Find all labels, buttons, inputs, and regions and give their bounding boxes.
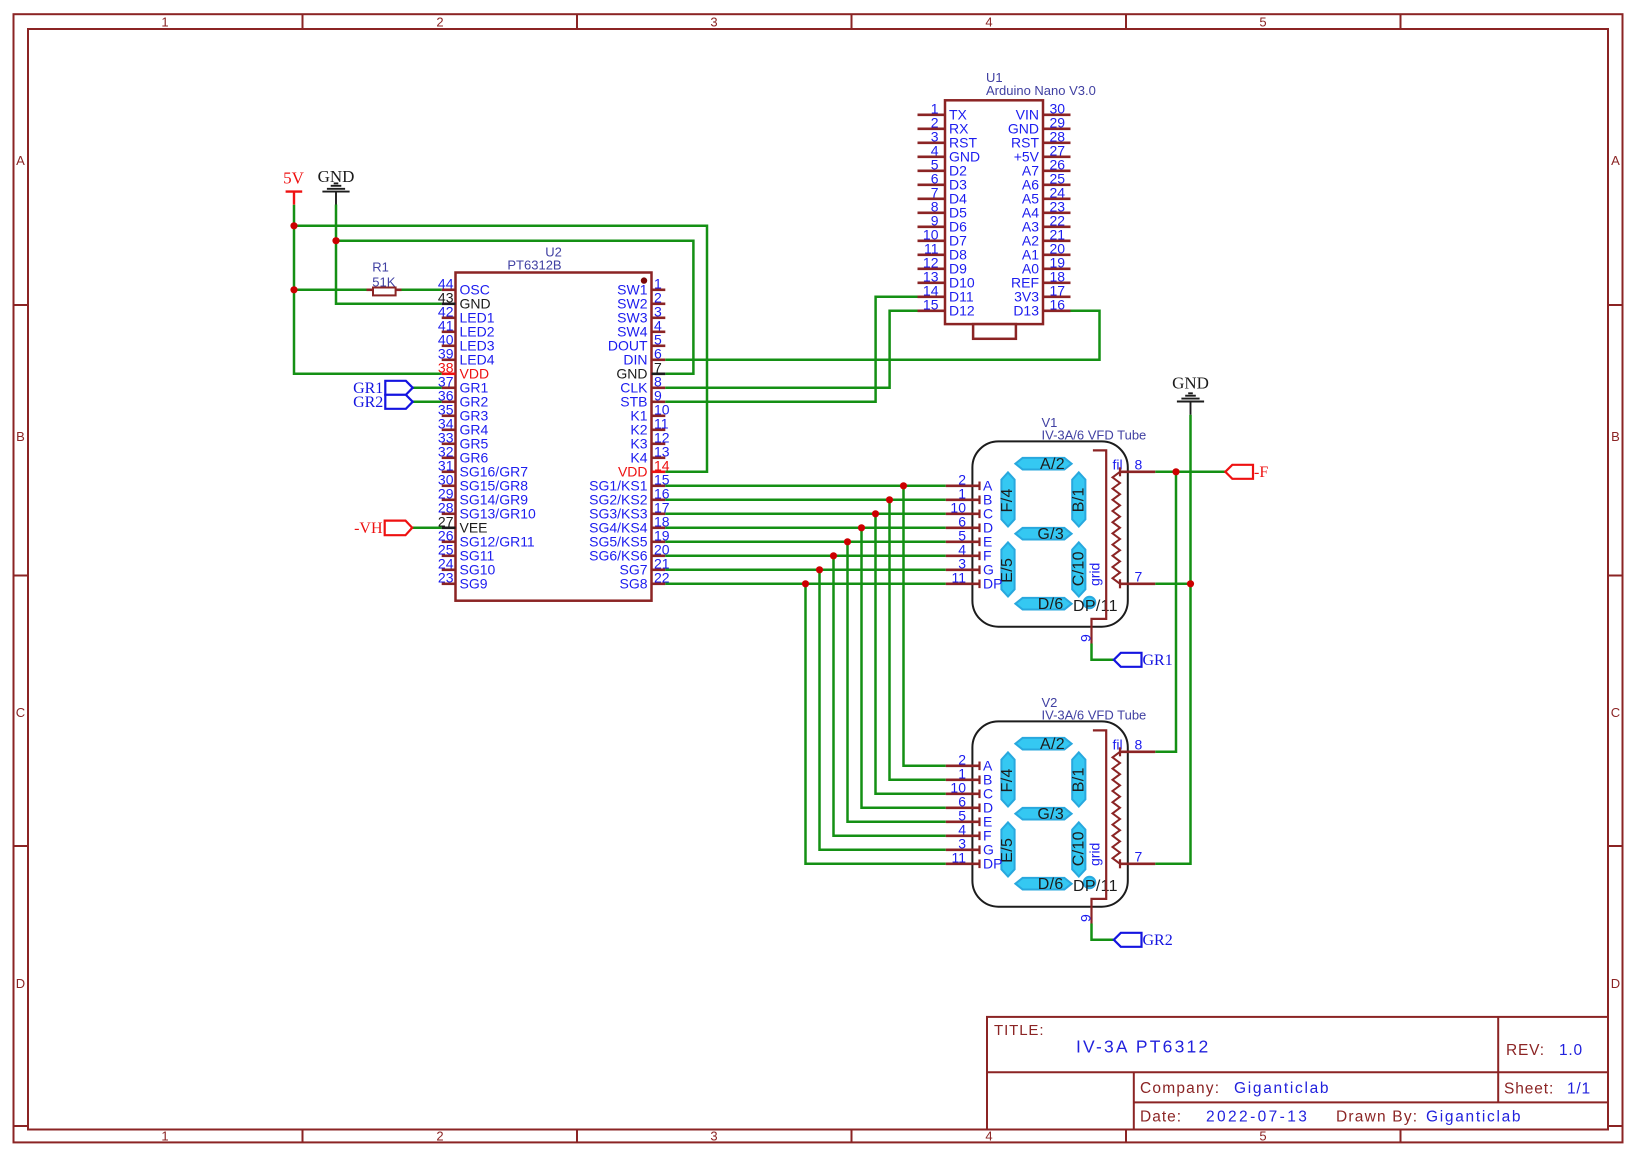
net flag GR1 (at V1) <box>1114 652 1173 669</box>
U2 pin 33 GR5 <box>438 430 489 452</box>
U2 pin 5 DOUT <box>608 332 665 354</box>
svg-text:A: A <box>16 153 25 168</box>
U2 pin 24 SG10 <box>438 556 496 578</box>
svg-text:C: C <box>16 705 25 720</box>
net flag -F <box>1225 464 1268 481</box>
U2 pin 12 K3 <box>630 430 669 452</box>
junction node D <box>858 524 865 531</box>
U1 pin 2 RX <box>918 115 970 137</box>
svg-text:4: 4 <box>985 15 992 30</box>
wire branch to V2 pin C <box>876 514 946 794</box>
wire U1 D11 to U2 STB <box>665 297 917 402</box>
svg-text:-VH: -VH <box>354 520 383 537</box>
U2 pin 42 LED1 <box>438 304 495 326</box>
junction node E <box>844 538 851 545</box>
U2 pin 43 GND <box>438 290 491 312</box>
U2 pin 13 K4 <box>630 444 669 466</box>
U2 pin-1 marker <box>641 277 647 283</box>
U1 pin 25 A6 <box>1022 171 1071 193</box>
U2 pin 27 VEE <box>438 514 488 536</box>
svg-text:R1: R1 <box>372 260 389 275</box>
svg-text:GR1: GR1 <box>1143 652 1173 669</box>
U2 pin 37 GR1 <box>438 374 489 396</box>
wire U2 SG7 to V1 pin G <box>665 569 946 572</box>
svg-text:D: D <box>16 976 25 991</box>
svg-text:TITLE:: TITLE: <box>994 1022 1044 1039</box>
junction node GND rail <box>332 237 339 244</box>
svg-text:SG8: SG8 <box>619 576 647 592</box>
svg-text:C: C <box>1611 705 1620 720</box>
svg-text:IV-3A/6 VFD Tube: IV-3A/6 VFD Tube <box>1042 708 1147 723</box>
U2 pin 9 STB <box>620 388 665 410</box>
junction node A <box>900 482 907 489</box>
wire U1 D13 to U2 DIN <box>665 311 1099 360</box>
U2 pin 7 GND <box>616 360 665 382</box>
wire U2 SG6 to V1 pin F <box>665 555 946 558</box>
svg-text:-F: -F <box>1254 464 1268 481</box>
U1 pin 11 D8 <box>918 241 968 263</box>
U2 pin 36 GR2 <box>438 388 489 410</box>
U2 pin 34 GR4 <box>438 416 489 438</box>
U1 pin 9 D6 <box>918 213 968 235</box>
svg-text:5: 5 <box>1259 1129 1266 1144</box>
svg-text:1.0: 1.0 <box>1559 1042 1583 1059</box>
svg-text:4: 4 <box>985 1129 992 1144</box>
wire branch to V2 pin E <box>848 542 946 822</box>
U2 pin 30 SG15/GR8 <box>438 472 528 494</box>
svg-text:IV-3A/6 VFD Tube: IV-3A/6 VFD Tube <box>1042 428 1147 443</box>
U1 pin 10 D7 <box>918 227 968 249</box>
wire U1 D12 to U2 CLK <box>665 311 917 388</box>
wire GND branch to U2 pin7 <box>336 241 693 374</box>
U1 pin 3 RST <box>918 129 978 151</box>
svg-text:Giganticlab: Giganticlab <box>1426 1109 1522 1126</box>
U2 pin 16 SG2/KS2 <box>589 486 670 508</box>
VFD tube V1 IV-3A/6 <box>946 415 1156 644</box>
U2 pin 26 SG12/GR11 <box>438 528 535 550</box>
U2 pin 10 K1 <box>630 402 669 424</box>
U2 pin 1 SW1 <box>617 276 665 298</box>
title block <box>987 1017 1608 1130</box>
U2 pin 3 SW3 <box>617 304 665 326</box>
U2 pin 38 VDD <box>438 360 489 382</box>
junction node F <box>830 552 837 559</box>
svg-text:GND: GND <box>1172 374 1209 393</box>
svg-text:PT6312B: PT6312B <box>507 257 561 272</box>
U2 pin 35 GR3 <box>438 402 489 424</box>
svg-text:Giganticlab: Giganticlab <box>1234 1080 1330 1097</box>
wire U2 SG3 to V1 pin C <box>665 513 946 516</box>
svg-text:1: 1 <box>161 1129 168 1144</box>
svg-text:15: 15 <box>923 297 939 313</box>
svg-text:SG9: SG9 <box>460 576 488 592</box>
U1 pin 22 A3 <box>1022 213 1071 235</box>
svg-text:A: A <box>1611 153 1620 168</box>
U1 pin 1 TX <box>918 101 968 123</box>
junction node fil <box>1172 468 1179 475</box>
U1 pin 21 A2 <box>1022 227 1071 249</box>
U1 pin 17 3V3 <box>1014 283 1070 305</box>
ground GND (left) <box>318 167 355 205</box>
junction node DP <box>802 580 809 587</box>
U1 pin 26 A7 <box>1022 157 1071 179</box>
IC U2 PT6312B body <box>456 245 652 601</box>
junction node G <box>816 566 823 573</box>
svg-text:Company:: Company: <box>1140 1080 1220 1097</box>
ground GND (right) <box>1172 374 1209 415</box>
U2 pin 22 SG8 <box>619 570 669 592</box>
svg-text:REV:: REV: <box>1506 1042 1545 1059</box>
U2 pin 17 SG3/KS3 <box>589 500 670 522</box>
svg-text:3: 3 <box>710 1129 717 1144</box>
U2 pin 8 CLK <box>620 374 665 396</box>
wire U2 SG2 to V1 pin B <box>665 499 946 502</box>
VFD tube V2 IV-3A/6 <box>946 695 1156 924</box>
wire branch to V2 pin G <box>820 570 946 850</box>
wire branch to V2 pin B <box>890 500 946 780</box>
U2 pin 14 VDD <box>618 458 670 480</box>
svg-text:2: 2 <box>436 15 443 30</box>
svg-text:3: 3 <box>710 15 717 30</box>
net flag GR2 (at V2) <box>1114 932 1173 949</box>
U1 pin 28 RST <box>1011 129 1071 151</box>
wire GND rail to V1/V2 pin7 <box>1155 415 1190 864</box>
wire -VH flag to U2 pin27 VEE <box>412 527 442 530</box>
U2 pin 2 SW2 <box>617 290 665 312</box>
U1 pin 27 +5V <box>1014 143 1071 165</box>
U2 pin 28 SG13/GR10 <box>438 500 536 522</box>
U2 pin 40 LED3 <box>438 332 495 354</box>
svg-text:D: D <box>1611 976 1620 991</box>
wire branch to V2 pin DP <box>806 584 946 864</box>
IC U1 Arduino Nano V3.0 body <box>945 70 1096 339</box>
U2 pin 19 SG5/KS5 <box>589 528 670 550</box>
U1 pin 20 A1 <box>1022 241 1071 263</box>
net flag -VH (at U2 VEE) <box>354 520 412 537</box>
wire V1 pin8 to -F flag <box>1155 471 1225 474</box>
svg-text:2022-07-13: 2022-07-13 <box>1206 1109 1309 1126</box>
svg-text:5: 5 <box>1259 15 1266 30</box>
U2 pin 32 GR6 <box>438 444 489 466</box>
wire branch to V2 pin A <box>904 486 946 766</box>
wire GR1 flag to U2 pin37 <box>413 387 442 390</box>
svg-text:5V: 5V <box>283 168 305 187</box>
U1 pin 15 D12 <box>918 297 975 319</box>
junction node 5V rail <box>290 222 297 229</box>
junction node C <box>872 510 879 517</box>
U2 pin 6 DIN <box>623 346 665 368</box>
svg-text:Arduino Nano V3.0: Arduino Nano V3.0 <box>986 83 1096 98</box>
U1 pin 30 VIN <box>1016 101 1071 123</box>
U1 pin 19 A0 <box>1022 255 1071 277</box>
U2 pin 29 SG14/GR9 <box>438 486 528 508</box>
wire V1 pin9 to GR1 <box>1092 644 1114 660</box>
wire branch to V2 pin D <box>862 528 946 808</box>
svg-text:GR2: GR2 <box>353 394 383 411</box>
wire U2 SG4 to V1 pin D <box>665 527 946 530</box>
svg-text:2: 2 <box>436 1129 443 1144</box>
svg-text:Sheet:: Sheet: <box>1504 1081 1554 1098</box>
svg-text:D13: D13 <box>1013 303 1039 319</box>
U1 pin 4 GND <box>918 143 981 165</box>
wire GR2 flag to U2 pin36 <box>413 401 442 404</box>
junction node gnd/pin7 <box>1187 580 1194 587</box>
svg-text:51K: 51K <box>372 275 395 290</box>
U2 pin 23 SG9 <box>438 570 488 592</box>
wire GND to U2 pin43 <box>336 205 442 304</box>
svg-text:23: 23 <box>438 570 454 586</box>
svg-text:16: 16 <box>1050 297 1066 313</box>
U1 pin 14 D11 <box>918 283 974 305</box>
svg-text:B: B <box>1611 429 1620 444</box>
U1 pin 8 D5 <box>918 199 968 221</box>
U2 pin 11 K2 <box>630 416 668 438</box>
wire U2 SG5 to V1 pin E <box>665 541 946 544</box>
net flag GR2 (at U2) <box>353 394 413 411</box>
U2 pin 44 OSC <box>438 276 490 298</box>
U2 pin 4 SW4 <box>617 318 665 340</box>
svg-text:Date:: Date: <box>1140 1109 1182 1126</box>
U1 pin 18 REF <box>1011 269 1071 291</box>
wire V2 pin9 to GR2 <box>1092 924 1114 940</box>
svg-text:GR2: GR2 <box>1143 932 1173 949</box>
U2 pin 25 SG11 <box>438 542 495 564</box>
wire 5V to U2 pin38 VDD <box>294 205 442 374</box>
U2 pin 21 SG7 <box>619 556 669 578</box>
svg-text:B: B <box>16 429 25 444</box>
U1 pin 6 D3 <box>918 171 968 193</box>
U2 pin 39 LED4 <box>438 346 495 368</box>
svg-text:1: 1 <box>161 15 168 30</box>
junction node B <box>886 496 893 503</box>
U1 pin 12 D9 <box>918 255 968 277</box>
U2 pin 15 SG1/KS1 <box>589 472 670 494</box>
net flag GR1 (at U2) <box>353 380 413 397</box>
U1 pin 16 D13 <box>1013 297 1070 319</box>
svg-text:Drawn By:: Drawn By: <box>1336 1109 1418 1126</box>
svg-text:1/1: 1/1 <box>1567 1081 1591 1098</box>
wire 5V to R1 <box>294 289 367 292</box>
wire 5V rail to U2 pin14 VDD <box>294 226 707 472</box>
U2 pin 20 SG6/KS6 <box>589 542 670 564</box>
svg-text:IV-3A PT6312: IV-3A PT6312 <box>1076 1037 1210 1057</box>
U2 pin 41 LED2 <box>438 318 495 340</box>
U2 pin 18 SG4/KS4 <box>589 514 670 536</box>
power flag 5V <box>283 168 305 204</box>
wire branch to V2 pin F <box>834 556 946 836</box>
resistor R1 51K <box>367 260 402 296</box>
wire V1 pin7 to GND rail <box>1155 583 1190 586</box>
U1 pin 29 GND <box>1008 115 1071 137</box>
svg-text:D12: D12 <box>949 303 975 319</box>
junction node R1/VDD <box>290 286 297 293</box>
wire U2 SG1 to V1 pin A <box>665 485 946 488</box>
wire fil rail to V2 pin8 <box>1155 472 1176 752</box>
wire U2 SG8 to V1 pin DP <box>665 583 946 586</box>
U1 pin 24 A5 <box>1022 185 1071 207</box>
U1 pin 7 D4 <box>918 185 968 207</box>
U1 pin 23 A4 <box>1022 199 1071 221</box>
U1 pin 5 D2 <box>918 157 968 179</box>
U1 pin 13 D10 <box>918 269 975 291</box>
wire R1 to U2 pin44 OSC <box>402 289 442 292</box>
U2 pin 31 SG16/GR7 <box>438 458 528 480</box>
